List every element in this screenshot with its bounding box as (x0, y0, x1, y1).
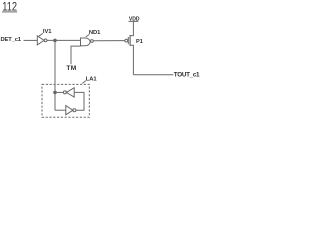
svg-text:ND1: ND1 (89, 30, 101, 36)
wire ND1 bottom input (71, 46, 81, 64)
svg-text:VDD: VDD (129, 17, 140, 23)
nand gate ND1 (81, 38, 91, 46)
label P1 (136, 39, 143, 45)
wire drain to TOUT_c1 (133, 74, 173, 76)
nand ND1 output bubble (91, 40, 94, 43)
power VDD bar (129, 20, 139, 22)
leader line LA1 (82, 81, 86, 84)
transistor P1 channel bar (129, 35, 131, 46)
label LA1 (86, 76, 98, 82)
inverter IV1 output bubble (44, 39, 47, 42)
leader line IV1 (39, 33, 43, 36)
svg-text:TOUT_c1: TOUT_c1 (174, 72, 200, 79)
wire ND1 output to P1 gate (93, 40, 125, 42)
label VDD (129, 17, 140, 23)
svg-text:TM: TM (66, 65, 76, 72)
junction node latch input (54, 91, 57, 94)
wire latch node to top inverter bubble (55, 91, 63, 93)
wire top inverter input loop (74, 92, 84, 110)
latch bottom inverter output bubble (73, 109, 76, 112)
latch LA1 dashed box (42, 84, 89, 117)
svg-text:LA1: LA1 (86, 76, 98, 82)
leader line ND1 (86, 34, 90, 37)
svg-text:IV1: IV1 (43, 29, 52, 35)
wire latch left to bottom inverter input (55, 109, 66, 111)
junction node after IV1 (54, 39, 57, 42)
transistor P1 source lead (130, 22, 133, 36)
node DET_c1 label (1, 37, 22, 43)
label TM (66, 65, 76, 72)
label IV1 (43, 29, 52, 35)
latch top inverter output bubble (63, 91, 66, 94)
figure number 112 (2, 0, 17, 14)
inverter IV1 (37, 36, 44, 45)
transistor P1 gate bubble (125, 39, 128, 42)
wire IV1 output to ND1 top input (47, 39, 81, 41)
label ND1 (89, 30, 101, 36)
svg-text:DET_c1: DET_c1 (1, 37, 22, 43)
latch bottom inverter (points right) (66, 106, 73, 115)
svg-text:P1: P1 (136, 39, 143, 45)
node TOUT_c1 label (174, 72, 200, 79)
transistor P1 gate bar (127, 37, 129, 44)
wire node down to latch (54, 40, 56, 110)
underline of 112 (2, 11, 17, 13)
transistor P1 drain lead (130, 45, 133, 75)
latch top inverter (points left) (66, 88, 74, 97)
wire DET_c1 to IV1 input (24, 39, 38, 41)
